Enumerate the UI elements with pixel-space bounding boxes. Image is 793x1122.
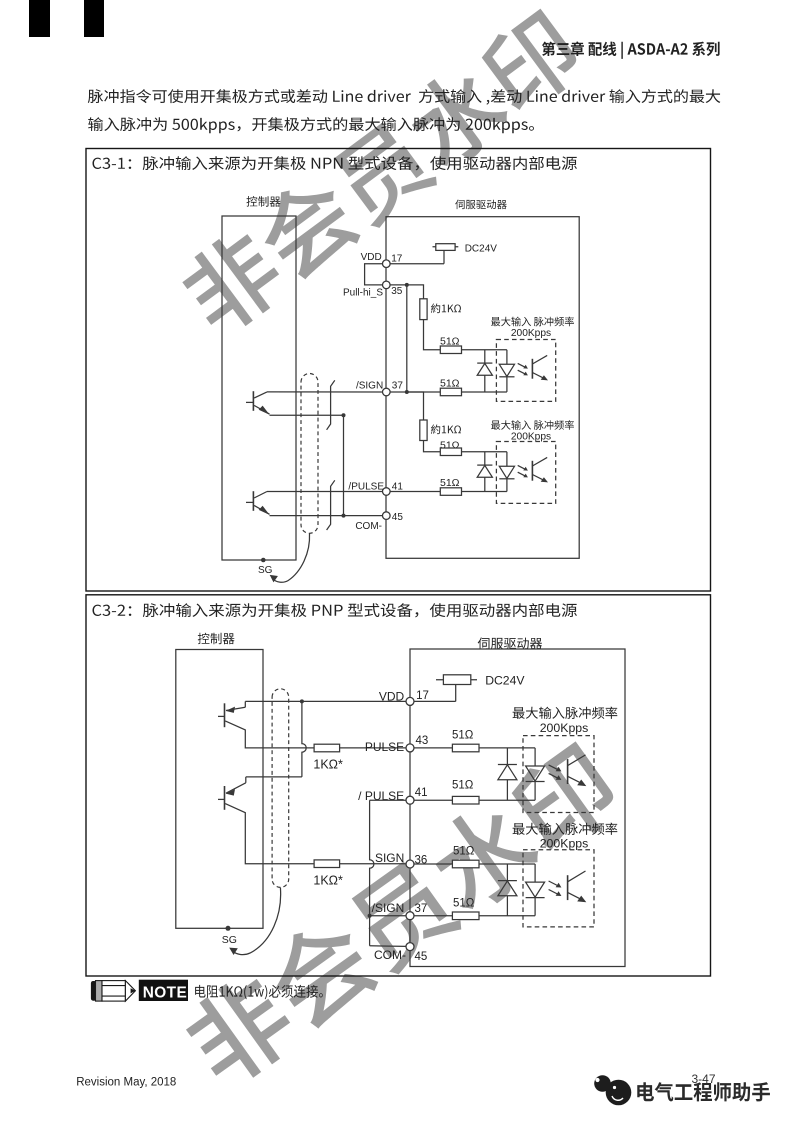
optocoupler U3 led D2 triangle	[526, 766, 545, 781]
watermark "non-member watermark" diagonal lower	[176, 736, 626, 1096]
optocoupler U3 light arrow 2	[549, 773, 560, 779]
wire VDD node to Q3 emitter	[245, 700, 302, 702]
svg-text:COM-: COM-	[374, 948, 406, 962]
phototransistor U4 bar	[567, 875, 569, 900]
svg-text:Pull-hi_S: Pull-hi_S	[343, 287, 383, 298]
optocoupler U1 light arrow 2	[518, 370, 527, 374]
transistor Q1 emitter	[254, 405, 269, 414]
optocoupler U2 led D2 bottom lead	[506, 479, 508, 492]
phototransistor U2 bar	[531, 461, 533, 481]
transistor Q2 emitter arrow	[259, 506, 270, 515]
wire VDD node down to Q4 emitter (hop over PULSE)	[302, 701, 306, 777]
pin 41 /PULSE	[383, 488, 391, 496]
pin 45 COM-	[383, 512, 391, 520]
optocoupler U1 led D2 triangle	[499, 364, 514, 376]
SG ground node (C3-2)	[226, 926, 231, 931]
wire pin37 to R12	[414, 915, 452, 917]
optocoupler U4 led D2 bottom lead	[534, 898, 536, 916]
controller label (C3-2)	[198, 633, 235, 645]
transistor Q1 bar	[252, 391, 254, 411]
cable shield capsule (C3-2)	[272, 689, 289, 888]
transistor Q2 base lead	[246, 501, 253, 503]
wire R3 to R5	[424, 441, 441, 452]
transistor Q1 base lead	[246, 401, 253, 403]
svg-text:COM-: COM-	[355, 521, 382, 532]
optocoupler U2 light arrow 2	[518, 472, 527, 476]
svg-text:NOTE: NOTE	[143, 984, 187, 1001]
resistor R2 51 ohm	[440, 346, 461, 354]
DC24V supply lead	[433, 246, 459, 248]
svg-text:VDD: VDD	[361, 252, 382, 263]
transistor Q2 collector	[254, 492, 267, 499]
watermark logo (electrical engineer assistant)	[594, 1075, 631, 1105]
wire R6 to optocoupler U2 cathode rail	[462, 491, 507, 493]
servo driver box (C3-2)	[410, 649, 625, 967]
resistor R11 51 ohm (SIGN)	[452, 860, 479, 868]
transistor Q4 emitter diagonal	[226, 783, 246, 793]
value label approx 1K ohm (R3)	[431, 425, 461, 435]
C3-2 title	[92, 603, 576, 617]
wire VDD branch to Q4 emitter	[246, 776, 302, 778]
optocoupler U3 led D1 bottom lead	[506, 780, 508, 801]
transistor Q3 emitter jog	[244, 701, 246, 707]
shield drain curve to SG (C3-2)	[233, 888, 281, 955]
optocoupler U2 light arrow 1	[518, 465, 527, 469]
wire pin35 to node A	[390, 284, 407, 286]
optocoupler U4 led D1 top lead	[506, 864, 508, 881]
optocoupler U2 dashed box	[496, 442, 555, 504]
twisted-pair mark on /PULSE pair	[327, 480, 335, 530]
optocoupler U2 led D2 triangle	[499, 466, 514, 478]
label max input pulse frequency (U4)	[513, 823, 618, 835]
shield drain curve to SG (C3-1)	[273, 534, 310, 583]
optocoupler U4 led D1 cathode bar	[498, 880, 517, 882]
svg-text:51Ω: 51Ω	[453, 846, 475, 858]
wire node A to R1	[407, 285, 424, 299]
label max input pulse frequency (U1)	[491, 317, 574, 327]
svg-text:51Ω: 51Ω	[453, 897, 475, 909]
paragraph line 1	[88, 89, 721, 105]
phototransistor U2 collector	[532, 457, 547, 466]
transistor Q4 bar	[224, 786, 226, 810]
svg-text:41: 41	[415, 787, 428, 799]
resistor R10 51 ohm (/PULSE)	[452, 796, 479, 804]
svg-text:DC24V: DC24V	[465, 243, 498, 254]
svg-text:1KΩ*: 1KΩ*	[313, 757, 343, 771]
transistor Q3 bar	[224, 703, 226, 727]
junction /SIGN to rail	[368, 914, 372, 918]
optocoupler U2 led D1 top lead	[484, 452, 486, 465]
optocoupler U1 led D1 top lead	[484, 350, 486, 363]
wire Q2 emitter segment	[270, 515, 344, 517]
optocoupler U1 led D1 cathode bar	[477, 362, 492, 364]
transistor Q2 bar	[252, 491, 254, 511]
wire rail to pin45	[370, 945, 406, 948]
controller box (C3-2)	[176, 650, 263, 929]
phototransistor U2 emitter	[532, 475, 545, 482]
value label approx 1K ohm (R1)	[431, 304, 461, 314]
phototransistor U3 bar	[567, 759, 569, 784]
servo driver label (C3-2)	[478, 637, 542, 649]
wire Q1 emitter bus	[270, 414, 344, 416]
svg-text:51Ω: 51Ω	[452, 730, 474, 742]
NOTE label box	[139, 980, 188, 1001]
wire emitter bus vertical	[343, 415, 345, 515]
wire R11 to U4 anode rail	[479, 863, 535, 865]
transistor Q1 emitter arrow	[259, 406, 270, 415]
svg-text:45: 45	[392, 512, 404, 523]
wire pin36 to R11	[414, 863, 452, 865]
wire node B to R3	[407, 392, 424, 420]
optocoupler U3 light arrow head 1	[556, 767, 562, 772]
svg-text:41: 41	[392, 481, 404, 492]
svg-text:DC24V: DC24V	[485, 674, 525, 688]
resistor R7 1K ohm (PULSE)	[314, 744, 340, 752]
wire R9 to U3 anode rail	[479, 747, 535, 749]
optocoupler U3 light arrow 1	[549, 765, 560, 771]
phototransistor U4 emitter arrow	[577, 896, 586, 903]
transistor Q4 emitter arrow into bar	[226, 789, 235, 795]
junction Q1 emitter node	[342, 413, 346, 417]
svg-text:1KΩ*: 1KΩ*	[313, 873, 343, 887]
wire Q1 collector to /SIGN pin	[267, 391, 383, 393]
wire emitter bus to pin45	[344, 515, 383, 517]
svg-text:SG: SG	[258, 565, 273, 576]
cable shield capsule (C3-1)	[301, 374, 318, 534]
optocoupler U2 led D2 cathode bar	[499, 478, 514, 480]
optocoupler U1 light arrow head 2	[523, 372, 528, 376]
C3-1 title	[92, 156, 576, 170]
pin 43 PULSE	[406, 744, 414, 752]
NOTE pencil icon	[91, 981, 135, 1002]
wire pin37 to node B	[390, 391, 407, 393]
svg-text:35: 35	[391, 286, 403, 297]
pin 37 /SIGN	[383, 388, 391, 396]
paragraph line 2	[88, 117, 534, 133]
wire R4 to optocoupler U1 cathode rail	[462, 391, 507, 393]
controller label (C3-1)	[247, 196, 281, 207]
watermark text: electrical engineer assistant	[637, 1082, 770, 1101]
C3-2 outer frame	[86, 595, 711, 976]
fuse/source symbol DC24V (C3-2)	[443, 675, 470, 685]
optocoupler U3 led D1 top lead	[506, 748, 508, 765]
resistor R5 51 ohm	[440, 448, 461, 456]
optocoupler U1 led D2 bottom lead	[506, 377, 508, 392]
wire pin37 to rail	[370, 915, 406, 917]
wire R1 to R2	[424, 320, 441, 350]
svg-text:51Ω: 51Ω	[440, 477, 460, 489]
resistor R8 1K ohm (SIGN)	[314, 860, 340, 868]
optocoupler U4 light arrow head 1	[556, 883, 562, 888]
fuse/source symbol DC24V	[436, 244, 455, 251]
optocoupler U4 led D1 triangle	[498, 881, 517, 896]
resistor R4 51 ohm on /SIGN	[440, 388, 461, 396]
phototransistor U1 emitter arrow	[541, 375, 548, 380]
optocoupler U4 light arrow 1	[549, 881, 560, 887]
rail /PULSE to COM- (hop over SIGN)	[370, 800, 374, 946]
phototransistor U4 emitter	[568, 892, 584, 900]
wire fuse drop (C3-2)	[455, 685, 457, 702]
svg-text:/SIGN: /SIGN	[372, 901, 405, 915]
svg-text:200Kpps: 200Kpps	[511, 431, 551, 442]
optocoupler U4 led D2 top lead	[534, 864, 536, 882]
label max input pulse frequency (U2)	[491, 420, 574, 430]
wire VDD line left	[302, 700, 406, 702]
optocoupler U3 led D2 cathode bar	[526, 781, 545, 783]
svg-text:/ PULSE: / PULSE	[358, 789, 404, 803]
wire pin43 to R9	[414, 747, 452, 749]
phototransistor U4 collector	[568, 871, 586, 882]
optocoupler U3 led D1 triangle	[498, 765, 517, 780]
optocoupler U2 light arrow head 2	[523, 474, 528, 478]
svg-text:SG: SG	[222, 934, 237, 946]
resistor R3 approx 1K ohm (vertical)	[420, 420, 427, 441]
pin 36 SIGN	[406, 860, 414, 868]
shield drain arrow (C3-1)	[270, 575, 278, 583]
optocoupler U4 light arrow head 2	[556, 891, 562, 896]
wire R10 to U3 cathode rail	[479, 799, 535, 801]
wire pin41 to R6	[390, 491, 440, 493]
wire R5 to optocoupler U2 anode rail	[462, 451, 507, 453]
junction node A	[405, 283, 409, 287]
pin 45 COM- (C3-2)	[406, 943, 414, 951]
optocoupler U1 led D1 bottom lead	[484, 375, 486, 392]
residual black bar 2 top-left	[84, 0, 104, 37]
svg-text:17: 17	[391, 253, 403, 264]
phototransistor U3 collector	[568, 755, 586, 766]
wire VDD to Pull-hi_S loop	[365, 264, 383, 285]
optocoupler U1 light arrow head 1	[523, 365, 528, 369]
optocoupler U1 light arrow 1	[518, 363, 527, 367]
optocoupler U3 led D2 top lead	[534, 748, 536, 766]
optocoupler U1 led D2 cathode bar	[499, 376, 514, 378]
svg-text:/SIGN: /SIGN	[356, 380, 383, 391]
watermark "non-member watermark" diagonal upper	[173, 3, 589, 342]
DC24V supply lead (C3-2)	[436, 679, 477, 681]
resistor R6 51 ohm on /PULSE	[440, 488, 461, 496]
label max input pulse frequency (U3)	[513, 707, 618, 719]
resistor R12 51 ohm (/SIGN)	[452, 912, 479, 920]
transistor Q3 emitter arrow into bar	[226, 707, 235, 713]
controller box (C3-1)	[222, 216, 296, 560]
transistor Q4 emitter jog	[245, 777, 247, 783]
svg-text:PULSE: PULSE	[365, 740, 404, 754]
NOTE body text: resistor 1K(1w) must be connected	[195, 985, 323, 1000]
wire R7 to pin43	[340, 747, 406, 749]
optocoupler U2 led D1 triangle	[477, 465, 492, 477]
C3-1 outer frame	[86, 149, 711, 592]
shield drain arrow (C3-2)	[229, 948, 238, 955]
servo driver box (C3-1)	[386, 217, 579, 559]
optocoupler U1 led D2 top lead	[506, 350, 508, 365]
optocoupler U1 led D1 triangle	[477, 363, 492, 375]
optocoupler U4 dashed box	[523, 850, 594, 927]
junction node B on /SIGN	[405, 390, 409, 394]
net node A to /SIGN node	[406, 285, 408, 392]
svg-text:37: 37	[415, 903, 428, 915]
optocoupler U4 led D1 bottom lead	[506, 896, 508, 916]
servo driver label (C3-1)	[455, 200, 507, 210]
wire fuse to VDD node	[443, 250, 445, 263]
pin 17 VDD (C3-2)	[406, 697, 414, 705]
wire Q2 collector to /PULSE pin	[267, 491, 383, 493]
twisted-pair mark on /SIGN pair	[327, 380, 335, 430]
optocoupler U2 led D1 cathode bar	[477, 464, 492, 466]
optocoupler U2 led D1 bottom lead	[484, 477, 486, 491]
pin 37 /SIGN (C3-2)	[406, 912, 414, 920]
transistor Q4 collector path	[225, 804, 314, 864]
optocoupler U2 led D2 top lead	[506, 452, 508, 467]
residual black bar 1 top-left	[29, 0, 50, 37]
wire VDD pin to fuse drop	[390, 263, 444, 265]
wire pin41 to rail	[370, 799, 406, 801]
page header: chapter 3 wiring ASDA-A2 series	[542, 42, 720, 59]
pin 17 VDD (C3-1)	[383, 260, 391, 268]
optocoupler U1 dashed box	[496, 340, 555, 402]
svg-text:200Kpps: 200Kpps	[540, 721, 589, 735]
wire R12 to U4 cathode rail	[479, 915, 535, 917]
optocoupler U2 light arrow head 1	[523, 467, 528, 471]
optocoupler U3 dashed box	[523, 736, 594, 813]
optocoupler U4 led D2 cathode bar	[526, 897, 545, 899]
svg-text:200Kpps: 200Kpps	[511, 328, 551, 339]
optocoupler U4 led D2 triangle	[526, 882, 545, 897]
svg-text:43: 43	[416, 735, 429, 747]
optocoupler U4 light arrow 2	[549, 890, 560, 896]
junction VDD node (C3-2)	[300, 699, 304, 703]
phototransistor U3 emitter arrow	[577, 780, 586, 787]
phototransistor U3 emitter	[568, 776, 584, 784]
transistor Q1 collector	[254, 392, 267, 398]
phototransistor U2 emitter arrow	[541, 477, 548, 482]
phototransistor U1 bar	[531, 359, 533, 379]
transistor Q3 collector path	[225, 721, 314, 748]
transistor Q3 base lead	[218, 715, 225, 717]
svg-text:51Ω: 51Ω	[452, 780, 474, 792]
wire VDD pin to fuse drop (C3-2)	[414, 700, 456, 702]
junction Q2 emitter node	[342, 514, 346, 518]
optocoupler U3 light arrow head 2	[556, 775, 562, 780]
svg-text:37: 37	[392, 381, 404, 392]
svg-text:200Kpps: 200Kpps	[540, 837, 589, 851]
svg-text:45: 45	[415, 951, 428, 963]
wire R8 to pin36	[340, 863, 406, 865]
optocoupler U3 led D1 cathode bar	[498, 764, 517, 766]
wire R2 to optocoupler U1 anode rail	[462, 349, 507, 351]
wire /SIGN node B to R4	[407, 391, 441, 393]
phototransistor U1 emitter	[532, 373, 545, 380]
transistor Q2 emitter	[254, 505, 269, 514]
svg-text:17: 17	[416, 690, 429, 702]
SG ground node (C3-1)	[261, 558, 266, 563]
svg-text:Revision May, 2018: Revision May, 2018	[76, 1076, 176, 1088]
svg-text:SIGN: SIGN	[375, 851, 404, 865]
wire pin41 to R10	[414, 799, 452, 801]
transistor Q3 emitter diagonal	[226, 707, 245, 710]
pin 41 /PULSE (C3-2)	[406, 796, 414, 804]
optocoupler U3 led D2 bottom lead	[534, 782, 536, 801]
transistor Q4 base lead	[218, 798, 225, 800]
pin 35 Pull-hi_S	[383, 281, 391, 289]
resistor R9 51 ohm (PULSE)	[452, 744, 479, 752]
phototransistor U1 collector	[532, 355, 547, 364]
resistor R1 approx 1K ohm (vertical)	[420, 299, 427, 320]
